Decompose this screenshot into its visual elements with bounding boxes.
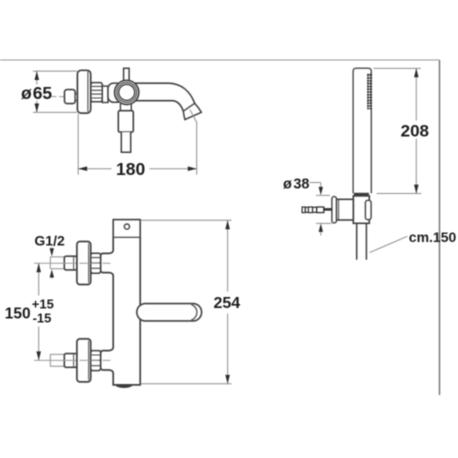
top inlet knurled nut [91,253,101,273]
cartridge stem [124,68,130,82]
lever end inner arc [191,305,197,320]
top inlet hex inner edge [73,257,75,270]
knob tab [75,94,77,100]
valve circle middle [117,83,137,103]
hose nipple hex [317,207,324,213]
dim 254 line [227,220,229,383]
lever handle [137,304,202,321]
dim ø65 line [36,71,38,112]
mounting plate [113,220,140,238]
dim G1/2 arrow up [51,275,53,279]
knob [65,90,76,104]
dim 180 arrow right [188,166,197,171]
frame top horizontal line [0,59,440,61]
hose nipple ribs [302,207,317,213]
bottom outlet [116,385,132,388]
bottom inlet nut ribs [91,355,101,366]
diverter neck [120,104,131,111]
svg-text:150: 150 [5,305,31,322]
dim 208 arrow up [414,68,419,77]
dim 180 line [78,168,197,170]
dim 254 arrow up [225,220,230,229]
dim 180 arrow left [78,166,87,171]
bottom inlet hex inner edge [73,354,75,367]
dim 208 arrow down [414,185,419,194]
holder clip tab [365,200,371,219]
outlet pipe down [121,132,130,152]
bottom inlet flange disc [77,339,91,382]
dim 208 extension top [374,67,421,69]
hose length leader line [370,236,408,252]
top inlet hex [64,256,77,270]
bottom inlet hex [64,354,77,368]
screw hole [124,224,129,229]
dim ø65 extension line top [33,70,77,72]
dim 150 arrow up [36,263,41,272]
dim 180 left extension [77,114,79,175]
dim 150 line [38,263,40,360]
spout tube bottom edge [135,101,183,112]
dim 254 arrow down [225,375,230,384]
svg-text:180: 180 [116,159,145,179]
dim ø38 leader [310,182,321,184]
spray nozzle strip [367,74,371,110]
hand shower hose [357,223,367,259]
frame right vertical line [439,60,441,395]
hose nipple shaft [324,208,332,211]
svg-text:ø38: ø38 [283,176,310,192]
holder cup [353,196,369,223]
dim G1/2 arrow down [51,247,53,251]
top inlet nut ribs [91,258,101,269]
dim ø65 extension line bottom [33,111,77,113]
dim ø65 arrow up [35,71,40,80]
top inlet centerline [34,262,76,264]
svg-text:254: 254 [213,295,240,312]
dim ø38 arrow up [320,230,322,236]
bottom inlet stub [50,354,64,366]
top inlet stub G1/2 [50,257,64,269]
bottom inlet knurled nut [91,351,101,371]
top inlet disc inner edge [88,243,90,282]
dim 150 arrow down [36,351,41,360]
dim 254 extension top [140,219,231,221]
svg-text:ø65: ø65 [21,83,52,103]
svg-text:G1/2: G1/2 [34,232,65,248]
shower handle outline [353,68,371,193]
valve circle inner [119,84,135,100]
dim 180 right extension diagonal [190,110,197,175]
dim 208 line [415,68,417,193]
svg-text:+15: +15 [32,297,54,312]
wall flange inner edge [87,72,89,112]
plate bottom edge [113,237,140,239]
top inlet flange disc [77,242,91,285]
spout tube top edge [135,83,195,103]
svg-text:cm.150: cm.150 [409,229,457,245]
knurled nut ribs [91,86,103,98]
valve body bulge [108,83,122,102]
spout end cap [183,103,201,119]
bottom inlet disc inner edge [88,341,90,380]
connector sleeve [102,86,108,102]
diverter body [118,111,133,132]
bracket arm [336,199,353,220]
dim 208 extension bottom [377,193,422,195]
body outline [101,238,141,385]
gasket band [354,193,368,196]
bracket arm end line [338,199,340,220]
knurled nut (side) [91,83,103,102]
valve circle outer [115,80,139,104]
bracket wall flange [332,197,337,223]
svg-text:208: 208 [401,121,429,140]
centerline dashes left of knob [52,96,65,98]
spout cap joint line [183,103,194,111]
dim ø38 arrow down [320,183,322,189]
dim ø38 extension top [316,194,330,196]
dim ø65 arrow down [35,104,40,113]
wall flange (side) [77,70,90,113]
svg-text:-15: -15 [33,311,52,326]
dim 254 extension bottom [141,383,232,385]
dim ø38 extension bottom [316,222,332,224]
bottom inlet centerline [34,359,76,361]
